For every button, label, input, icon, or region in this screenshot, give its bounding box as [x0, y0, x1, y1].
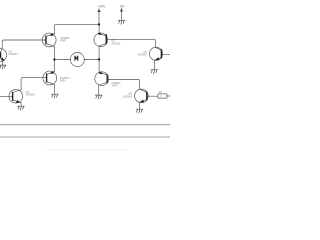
svg-text:2N3904: 2N3904 [9, 52, 19, 56]
svg-text:+10V: +10V [97, 4, 106, 8]
svg-text:M1: M1 [78, 51, 82, 55]
svg-text:2N3906: 2N3906 [111, 42, 121, 46]
svg-text:2N3904: 2N3904 [123, 94, 133, 98]
svg-text:NPN: NPN [60, 78, 66, 82]
svg-text:0V: 0V [120, 4, 125, 8]
svg-text:2N3904: 2N3904 [26, 93, 36, 97]
svg-text:R1: R1 [159, 90, 163, 94]
svg-text:1k: 1k [160, 96, 163, 98]
svg-text:2N3904: 2N3904 [138, 52, 148, 56]
svg-text:NPN: NPN [112, 84, 118, 88]
svg-text:PNP: PNP [60, 39, 66, 43]
